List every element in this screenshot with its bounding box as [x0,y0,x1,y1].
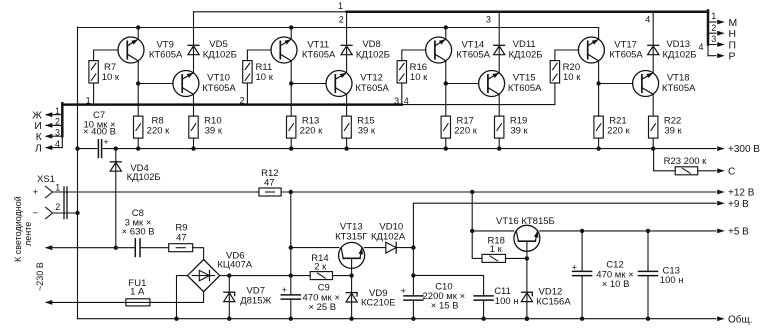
wire VD10 to +9 corner [396,247,413,249]
junction +9 corner [411,245,415,249]
svg-text:КТ605А: КТ605А [508,83,542,94]
junction C10 stub [411,273,415,277]
svg-text:КТ605А: КТ605А [355,83,389,94]
junction pin2 to left vertical [75,211,79,215]
junction +12 at VT16 feed [470,190,474,194]
svg-text:4: 4 [699,42,704,52]
junction R17 on +300 line [444,146,448,150]
svg-text:2: 2 [711,23,716,33]
svg-text:1: 1 [86,95,91,105]
svg-text:100 н: 100 н [660,275,684,286]
capacitor C10 2200 мк [404,295,423,297]
arrow C output [717,168,725,173]
svg-text:К светодиодной: К светодиодной [13,196,23,262]
resistor R20 10 к [550,61,559,83]
junction C13 bottom [646,317,650,321]
wire VT11 emitter to rail [290,28,292,40]
wire base link to VT12 [291,83,326,85]
transistor VT11 КТ605А [271,37,297,63]
wire R17 bottom lead [445,138,447,149]
junction R19 on +300 line [497,146,501,150]
svg-text:+9 В: +9 В [728,199,749,210]
wire R8 top lead [137,84,139,117]
svg-text:VT16 КТ815Б: VT16 КТ815Б [496,216,555,227]
wire common rail [78,318,717,320]
wire AC line 2 to FU1 [47,301,126,303]
wire VT12 emitter up through VD8 [346,12,348,73]
wire C13 lower lead [647,276,649,319]
wire VT17 emitter to rail [598,28,600,40]
svg-text:С: С [728,167,735,178]
svg-text:КС210Е: КС210Е [361,298,395,309]
capacitor C11 100 н [474,295,493,297]
wire output bundle right vertical (thin) [707,45,709,56]
connector XS1 mating bars [63,187,65,219]
wire VT15 emitter up through VD11 [498,12,500,73]
svg-text:КД102Б: КД102Б [356,49,390,60]
svg-text:КТ605А: КТ605А [302,50,336,61]
svg-text:39 к: 39 к [510,126,528,137]
svg-text:КС156А: КС156А [536,297,571,308]
svg-text:× 400 В: × 400 В [83,126,116,137]
svg-text:100 н: 100 н [495,296,519,307]
svg-text:Общ.: Общ. [728,314,753,326]
junction VD4 bottom on AC line [114,246,118,250]
wire R9 to bridge top [193,248,204,260]
junction R8 on +300 line [136,146,140,150]
diode VD5 КД102Б [188,44,199,46]
junction C9 bottom [289,317,293,321]
svg-text:~230 В: ~230 В [35,262,45,291]
wire R18 to base node [506,257,527,259]
resistor R18 1 к [482,254,506,262]
svg-text:КТ605А: КТ605А [662,83,696,94]
svg-text:К: К [36,132,42,143]
wire output stub М [708,21,716,23]
wire left staircase vertical (thick part) [61,103,64,136]
svg-text:220 к: 220 к [300,126,323,137]
capacitor C13 100 н [639,270,658,272]
junction plus line at C9 vertical [289,273,293,277]
wire +9 corner vertical [412,203,414,296]
svg-text:× 10 В: × 10 В [602,279,630,290]
wire VT16 collector line [472,230,514,232]
transistor VT16 КТ815Б [514,225,540,251]
resistor R22 39 к [649,116,658,138]
resistor R10 39 к [189,116,198,138]
wire output stub Н [708,32,716,34]
diode VD10 КД102А [386,242,396,253]
svg-text:47: 47 [176,233,187,244]
svg-text:220 к: 220 к [607,126,630,137]
wire input group line (bundle) [62,103,402,106]
arrow AC line 2 [45,300,53,305]
svg-text:1: 1 [338,1,343,11]
wire C11 lower lead [483,300,485,319]
svg-text:Д815Ж: Д815Ж [240,295,271,306]
junction +12 at C9 vertical [289,190,293,194]
capacitor C12 470 мк [573,270,592,272]
svg-text:× 630 В: × 630 В [122,227,155,238]
transistor VT13 КТ315Г [339,242,365,268]
capacitor C9 470 мк [281,294,300,296]
transistor VT15 КТ605А [479,71,505,97]
wire base link to VT15 [446,83,479,85]
wire R23 branch [654,149,676,171]
wire output stub Р [708,55,716,57]
arrow +12 output [717,190,725,195]
svg-text:Л: Л [35,143,42,154]
wire R11 top lead to VT11 base [247,50,271,61]
arrow common output [717,316,725,321]
wire C10-C11 stub [413,275,483,296]
wire C10 lower lead [412,300,414,319]
resistor R13 220 к [287,116,296,138]
junction VD7 bottom [227,317,231,321]
svg-text:2 к: 2 к [314,261,327,272]
svg-text:3: 3 [394,96,399,106]
svg-text:4: 4 [404,96,409,106]
junction VT16 base node [525,256,529,260]
svg-text:3: 3 [711,34,716,44]
junction VT14 emitter on rail [444,25,448,29]
wire AC line 1 [47,247,136,249]
junction VT9 emitter on rail [136,25,140,29]
capacitor C7 [97,140,99,158]
svg-text:× 25 В: × 25 В [308,302,336,313]
wire XS1 pin1 to R12 [53,191,259,193]
transistor VT14 КТ605А [426,37,452,63]
wire R7 top lead to VT9 base [94,50,119,61]
junction base node stage 2 [289,81,293,85]
wire C12 lower lead [581,276,583,319]
junction VD9 bottom [349,317,353,321]
svg-text:2: 2 [55,202,60,212]
svg-text:+: + [401,286,407,297]
svg-text:КД102Б: КД102Б [127,172,161,183]
svg-text:1: 1 [711,11,716,21]
svg-text:2: 2 [339,14,344,24]
wire R22 bottom lead [652,138,654,149]
svg-text:КД102А: КД102А [371,232,406,243]
wire VT18 collector down [652,94,654,116]
wire R21 bottom lead [598,138,600,149]
wire base link to VT18 [599,83,633,85]
transistor VT9 КТ605А [118,37,144,63]
svg-text:220 к: 220 к [454,126,477,137]
wire VD9 vertical [351,276,353,319]
wire VT10 collector down [193,94,195,116]
diode VD11 КД102Б [494,44,505,46]
resistor R8 220 к [134,116,143,138]
wire +9 rail [413,202,716,204]
wire input stub 4 [47,147,63,149]
wire VT12 collector down [346,94,348,116]
svg-text:+: + [572,262,578,273]
svg-text:КТ605А: КТ605А [202,83,236,94]
wire VD12 vertical [526,258,528,318]
svg-text:10 к: 10 к [256,72,274,83]
wire VT16 feed vertical [471,192,473,231]
svg-text:−: − [33,208,39,219]
wire VT18 emitter up through VD13 [652,12,654,73]
arrow input Л [45,145,53,150]
svg-text:+12 В: +12 В [728,188,755,199]
resistor R11 10 к [243,61,252,83]
transistor VT17 КТ605А [578,37,604,63]
diode VD9 КС210Е [346,292,357,294]
wire R7 bottom lead tap 1 [93,83,95,105]
svg-text:3: 3 [486,15,491,25]
svg-text:10 к: 10 к [563,72,581,83]
wire C13 upper lead [647,231,649,272]
wire R15 bottom lead [346,138,348,149]
svg-text:П: П [729,40,736,51]
wire R13 top lead [290,84,292,117]
junction VD4 top [114,146,118,150]
svg-text:ленте: ленте [23,222,33,246]
wire VT15 collector down [498,94,500,116]
wire C12 upper lead [581,231,583,272]
resistor R14 2 к [310,272,332,280]
wire XS1 pin2 to left vertical [53,212,78,214]
svg-text:39 к: 39 к [358,126,376,137]
junction VD7 top [227,273,231,277]
wire VT14 emitter to rail [445,28,447,40]
wire +5 rail [540,230,716,232]
wire R20 top lead to VT17 base [555,50,579,61]
wire R11 bottom lead tap 2 [246,83,248,105]
junction VT11 emitter on rail [289,25,293,29]
diode VD7 Д815Ж [224,291,235,293]
svg-text:КД102Б: КД102Б [662,49,696,60]
transistor VT10 КТ605А [173,71,199,97]
fuse FU1 1 А [126,299,150,306]
junction C12 bottom [580,317,584,321]
wire R20 bottom lead tap 4 [554,83,556,105]
capacitor C8 [134,239,136,257]
connector XS1 pin 1 contact [46,186,53,197]
resistor R15 39 к [342,116,351,138]
wire input stub 3 [47,135,63,137]
junction base node stage 3 [444,81,448,85]
connector XS1 pin 2 contact [46,207,53,218]
svg-text:М: М [729,18,738,29]
wire R13 bottom lead [290,138,292,149]
junction VD12 on common rail [525,317,529,321]
svg-text:И: И [34,121,41,132]
wire input bundle thin continuation (wire 4) [402,104,555,106]
arrow input И [45,123,53,128]
wire output bundle right vertical (thick) [707,11,710,45]
arrow +9 output [717,201,725,206]
label К светодиодной ленте [13,196,33,262]
svg-text:КЦ407А: КЦ407А [217,260,252,271]
arrow +300 output [717,146,725,151]
svg-text:1: 1 [55,183,60,193]
wire VT13 collector line [291,247,339,249]
wire plus line bridge to R14 [229,275,310,277]
resistor R19 39 к [495,116,504,138]
resistor R7 10 к [89,61,98,83]
wire R14 to VT13 base node [333,275,352,277]
wire VD7 vertical [228,276,230,319]
junction C11 bottom [481,317,485,321]
svg-text:× 15 В: × 15 В [431,300,459,311]
svg-text:4: 4 [645,14,650,24]
wire left staircase vertical (thin part) [61,136,63,147]
wire C9 lower lead [290,299,292,319]
wire output stub П [708,44,716,46]
junction C12 top [580,229,584,233]
wire VT9 emitter to rail [137,28,139,40]
arrow +5 output [717,229,725,234]
svg-text:+5 В: +5 В [728,227,749,238]
wire R10 bottom lead [193,138,195,149]
wire base link to VT10 [138,83,173,85]
svg-text:2: 2 [55,117,60,127]
wire R8 bottom lead [137,138,139,149]
diode VD12 КС156А [522,291,533,293]
wire VT14 collector down [445,61,447,84]
svg-text:220 к: 220 к [147,126,170,137]
resistor R16 10 к [397,61,406,83]
junction bridge-left on common rail [174,317,178,321]
rectifier bridge VD6 КЦ407А [188,260,220,292]
wire output bundle (thick) [347,11,708,14]
svg-text:3: 3 [55,127,60,137]
diode VD13 КД102Б [648,44,659,46]
svg-text:10 к: 10 к [102,72,120,83]
svg-text:КТ605А: КТ605А [609,50,643,61]
junction R22 on +300 line [651,146,655,150]
wire bridge left to common [177,276,188,319]
arrow input К [45,134,53,139]
svg-text:КД102Б: КД102Б [508,49,542,60]
arrow output П [717,42,725,47]
wire C9 vertical upper [290,192,292,295]
transistor VT18 КТ605А [633,71,659,97]
wire left main vertical [77,27,79,319]
svg-text:XS1: XS1 [37,174,55,185]
svg-text:4: 4 [55,139,60,149]
svg-text:КТ605А: КТ605А [456,50,490,61]
wire +300 line [103,148,716,150]
wire R19 bottom lead [498,138,500,149]
wire FU1 to bridge bottom [150,292,204,303]
wire bridge right corner [220,275,230,277]
svg-text:+: + [282,285,288,296]
svg-text:КТ605А: КТ605А [149,50,183,61]
wire 1 top thin segment [194,11,347,13]
svg-text:КД102Б: КД102Б [203,49,237,60]
resistor R12 47 [259,188,281,196]
svg-text:Н: Н [729,29,737,40]
arrow AC line 1 [45,245,53,250]
resistor R9 47 [169,244,193,252]
wire R18 branch [472,231,482,259]
wire R21 top lead [598,84,600,117]
junction +300 line at left vertical [75,146,79,150]
junction base node stage 4 [596,81,600,85]
junction C9 vertical at VT13 collector line [289,245,293,249]
wire VT17 collector down [598,61,600,84]
junction base node stage 1 [136,81,140,85]
svg-text:2: 2 [240,96,245,106]
diode VD8 КД102Б [341,44,352,46]
svg-text:Р: Р [729,52,736,63]
svg-text:+: + [33,187,39,198]
svg-text:1 к: 1 к [490,244,503,255]
junction VD12 bottom [525,317,529,321]
resistor R17 220 к [441,116,450,138]
wire input stub 1 [47,114,63,116]
junction VT13 base node [349,273,353,277]
wire R17 top lead [445,84,447,117]
wire VT13 emitter to VD10 [364,247,385,249]
arrow output Р [717,53,725,58]
arrow output Н [717,31,725,36]
svg-text:10 к: 10 к [410,72,428,83]
diode VD4 КД102Б [110,161,121,163]
svg-text:R23 200 к: R23 200 к [664,156,708,167]
arrow input Ж [45,112,53,117]
wire R23 to C output [698,170,716,172]
wire R16 bottom lead tap 3 [401,83,403,105]
wire VT10 emitter up through VD5 [193,12,195,73]
wire R16 top lead to VT14 base [402,50,426,61]
wire VT11 collector down [290,61,292,84]
svg-text:47: 47 [264,177,275,188]
junction R10 on +300 line [191,146,195,150]
wire VT9 collector down [137,61,139,84]
junction R13 on +300 line [289,146,293,150]
svg-text:1 А: 1 А [130,286,145,297]
arrow output М [717,20,725,25]
svg-text:+300 В: +300 В [728,144,760,155]
svg-text:39 к: 39 к [664,126,682,137]
resistor R23 200 к [675,167,698,175]
junction VT16 base feed [470,229,474,233]
wire upper emitter rail [78,27,599,29]
junction C13 top [646,229,650,233]
svg-text:39 к: 39 к [205,126,223,137]
wire VT13 base lead [351,258,353,275]
svg-text:КТ315Г: КТ315Г [335,232,367,243]
wire +12 rail [281,191,716,193]
svg-text:1: 1 [55,106,60,116]
transistor VT12 КТ605А [326,71,352,97]
junction C10 bottom [411,317,415,321]
resistor R21 220 к [594,116,603,138]
wire input stub 2 [47,124,63,126]
wire +300 line left segment [78,148,97,150]
junction R15 on +300 line [344,146,348,150]
junction R21 on +300 line [596,146,600,150]
svg-text:Ж: Ж [32,111,42,122]
svg-text:+: + [103,137,109,148]
wire VD4 vertical [115,149,117,248]
wire VT16 base lead [526,241,528,258]
